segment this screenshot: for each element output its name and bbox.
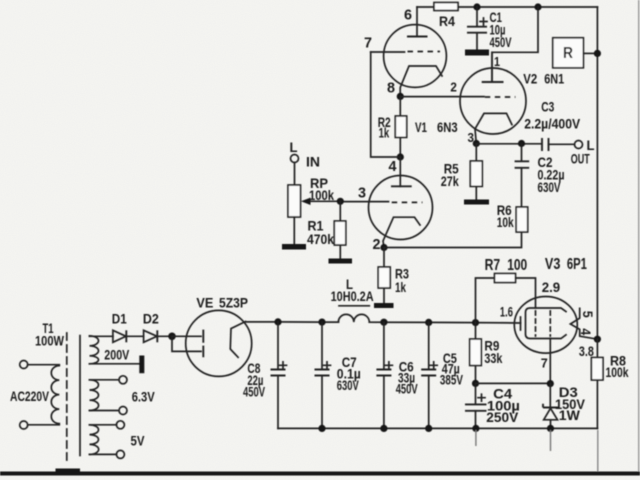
svg-text:OUT: OUT (571, 151, 590, 167)
resistor R7 (476, 278, 495, 323)
transformer core (66, 333, 68, 461)
wire top B+ (417, 6, 597, 8)
resistor R4 (434, 3, 458, 11)
diode D1 (113, 330, 126, 342)
svg-text:C3: C3 (541, 99, 554, 115)
ground (R1) (329, 259, 353, 264)
border right edge (638, 0, 640, 472)
inductor L choke (338, 314, 369, 322)
zener D3 (549, 384, 551, 408)
node junction 4 (397, 153, 404, 160)
svg-text:5Z3P: 5Z3P (219, 295, 248, 311)
svg-text:450V: 450V (396, 381, 418, 397)
node junction C8 (274, 318, 281, 325)
secondary 200V (90, 336, 99, 364)
ground (RP) (282, 244, 306, 250)
capacitor C2 (521, 144, 523, 162)
svg-text:10H0.2A: 10H0.2A (331, 288, 374, 304)
node junction C1 (473, 3, 480, 10)
svg-text:27k: 27k (441, 173, 459, 189)
wire feedback (384, 233, 522, 248)
svg-text:AC220V: AC220V (10, 388, 49, 404)
svg-text:4: 4 (389, 158, 398, 175)
wire grid V2 (400, 96, 484, 98)
svg-text:V2: V2 (523, 70, 537, 86)
ground (R3) (374, 303, 394, 308)
svg-text:33k: 33k (484, 350, 502, 366)
svg-text:450V: 450V (243, 384, 265, 400)
node junction C6 (380, 319, 387, 326)
tube V1 lower triode (369, 176, 433, 240)
svg-text:1: 1 (494, 54, 500, 69)
svg-text:6N1: 6N1 (544, 70, 564, 86)
primary coil (51, 366, 59, 424)
resistor R3 (383, 248, 385, 304)
svg-text:100k: 100k (309, 187, 334, 203)
secondary 6.3V (90, 380, 99, 411)
capacitor C7 (321, 322, 323, 369)
wire right rail (596, 7, 598, 339)
svg-text:2.9: 2.9 (542, 279, 561, 295)
secondary 5V (90, 425, 99, 455)
wire to V2 pin1 (492, 7, 538, 82)
node junction V2 plate feed (534, 3, 541, 10)
resistor R9 (475, 323, 477, 384)
svg-text:D1: D1 (112, 311, 127, 327)
node junction R7/R9 (472, 319, 479, 326)
svg-text:L: L (290, 139, 298, 155)
node junction grid (337, 198, 344, 205)
svg-text:4: 4 (578, 328, 594, 335)
node junction C2 (518, 140, 525, 147)
svg-text:630V: 630V (538, 179, 561, 195)
node junction 3 (V2 cathode) (473, 140, 480, 147)
svg-text:450V: 450V (490, 34, 512, 50)
diode D2 (144, 330, 157, 342)
svg-text:6: 6 (404, 7, 412, 24)
svg-text:8: 8 (387, 80, 395, 97)
node junction pin7 (547, 380, 554, 387)
svg-text:VE: VE (196, 295, 213, 311)
svg-text:100: 100 (507, 257, 527, 274)
tube V2 (460, 68, 526, 134)
svg-text:7: 7 (541, 356, 548, 371)
resistor R2 (399, 96, 401, 157)
svg-text:2: 2 (450, 80, 457, 95)
svg-text:1W: 1W (559, 407, 581, 423)
svg-text:100W: 100W (35, 333, 65, 349)
wire bias node (476, 382, 551, 384)
svg-text:R: R (563, 45, 573, 62)
wire ground bus (278, 427, 597, 429)
svg-text:R4: R4 (439, 13, 455, 29)
svg-text:7: 7 (364, 35, 372, 52)
ground (C1) (465, 50, 489, 56)
svg-text:6.3V: 6.3V (132, 389, 156, 405)
svg-text:V3: V3 (545, 256, 561, 273)
capacitor C4 (475, 383, 477, 404)
svg-text:D2: D2 (143, 311, 159, 327)
wire loop grid V1 upper (371, 52, 401, 157)
svg-text:6N3: 6N3 (437, 119, 458, 135)
svg-text:385V: 385V (440, 372, 463, 388)
svg-text:3: 3 (358, 185, 366, 202)
svg-text:470k: 470k (307, 231, 334, 247)
potentiometer RP (294, 163, 296, 186)
resistor R1 (339, 201, 341, 258)
wire output node (476, 143, 541, 145)
capacitor C1 (476, 7, 478, 26)
svg-text:1k: 1k (395, 279, 406, 295)
svg-text:R7: R7 (485, 257, 501, 274)
capacitor C8 (277, 322, 279, 369)
svg-text:250V: 250V (486, 409, 519, 425)
border bottom (0, 472, 640, 476)
resistor box R (553, 38, 584, 68)
svg-text:2.2µ/400V: 2.2µ/400V (524, 115, 581, 131)
wire stubs below bus (475, 430, 477, 446)
ground (R5) (464, 200, 489, 205)
svg-text:2: 2 (373, 236, 381, 253)
node junction cathode (594, 336, 601, 343)
svg-text:630V: 630V (337, 377, 359, 393)
capacitor C3 (542, 138, 549, 151)
node junction rectifier (168, 333, 176, 341)
terminal L OUT (575, 141, 583, 149)
svg-text:200V: 200V (104, 347, 130, 363)
svg-text:V1: V1 (415, 119, 427, 135)
resistor R6 (516, 207, 528, 232)
node junction 2 (380, 244, 387, 251)
svg-text:5V: 5V (131, 433, 146, 449)
capacitor C5 (428, 322, 430, 369)
wire B+ bus (244, 321, 339, 323)
svg-text:3.8: 3.8 (579, 343, 594, 359)
svg-text:IN: IN (306, 154, 320, 170)
svg-text:6P1: 6P1 (567, 256, 587, 273)
svg-text:1.6: 1.6 (500, 304, 513, 320)
resistor R8 (596, 339, 598, 428)
node junction 8 (397, 93, 404, 100)
node junction C7 (318, 319, 325, 326)
capacitor C6 (383, 322, 385, 369)
node junction R9/C4 (472, 380, 479, 387)
svg-text:100k: 100k (606, 364, 629, 380)
svg-text:1k: 1k (379, 124, 390, 140)
resistor R5 (475, 144, 477, 200)
tube V1 upper triode (384, 25, 447, 88)
svg-text:10k: 10k (497, 214, 514, 230)
node junction C5 (425, 319, 432, 326)
svg-text:5: 5 (580, 311, 596, 318)
